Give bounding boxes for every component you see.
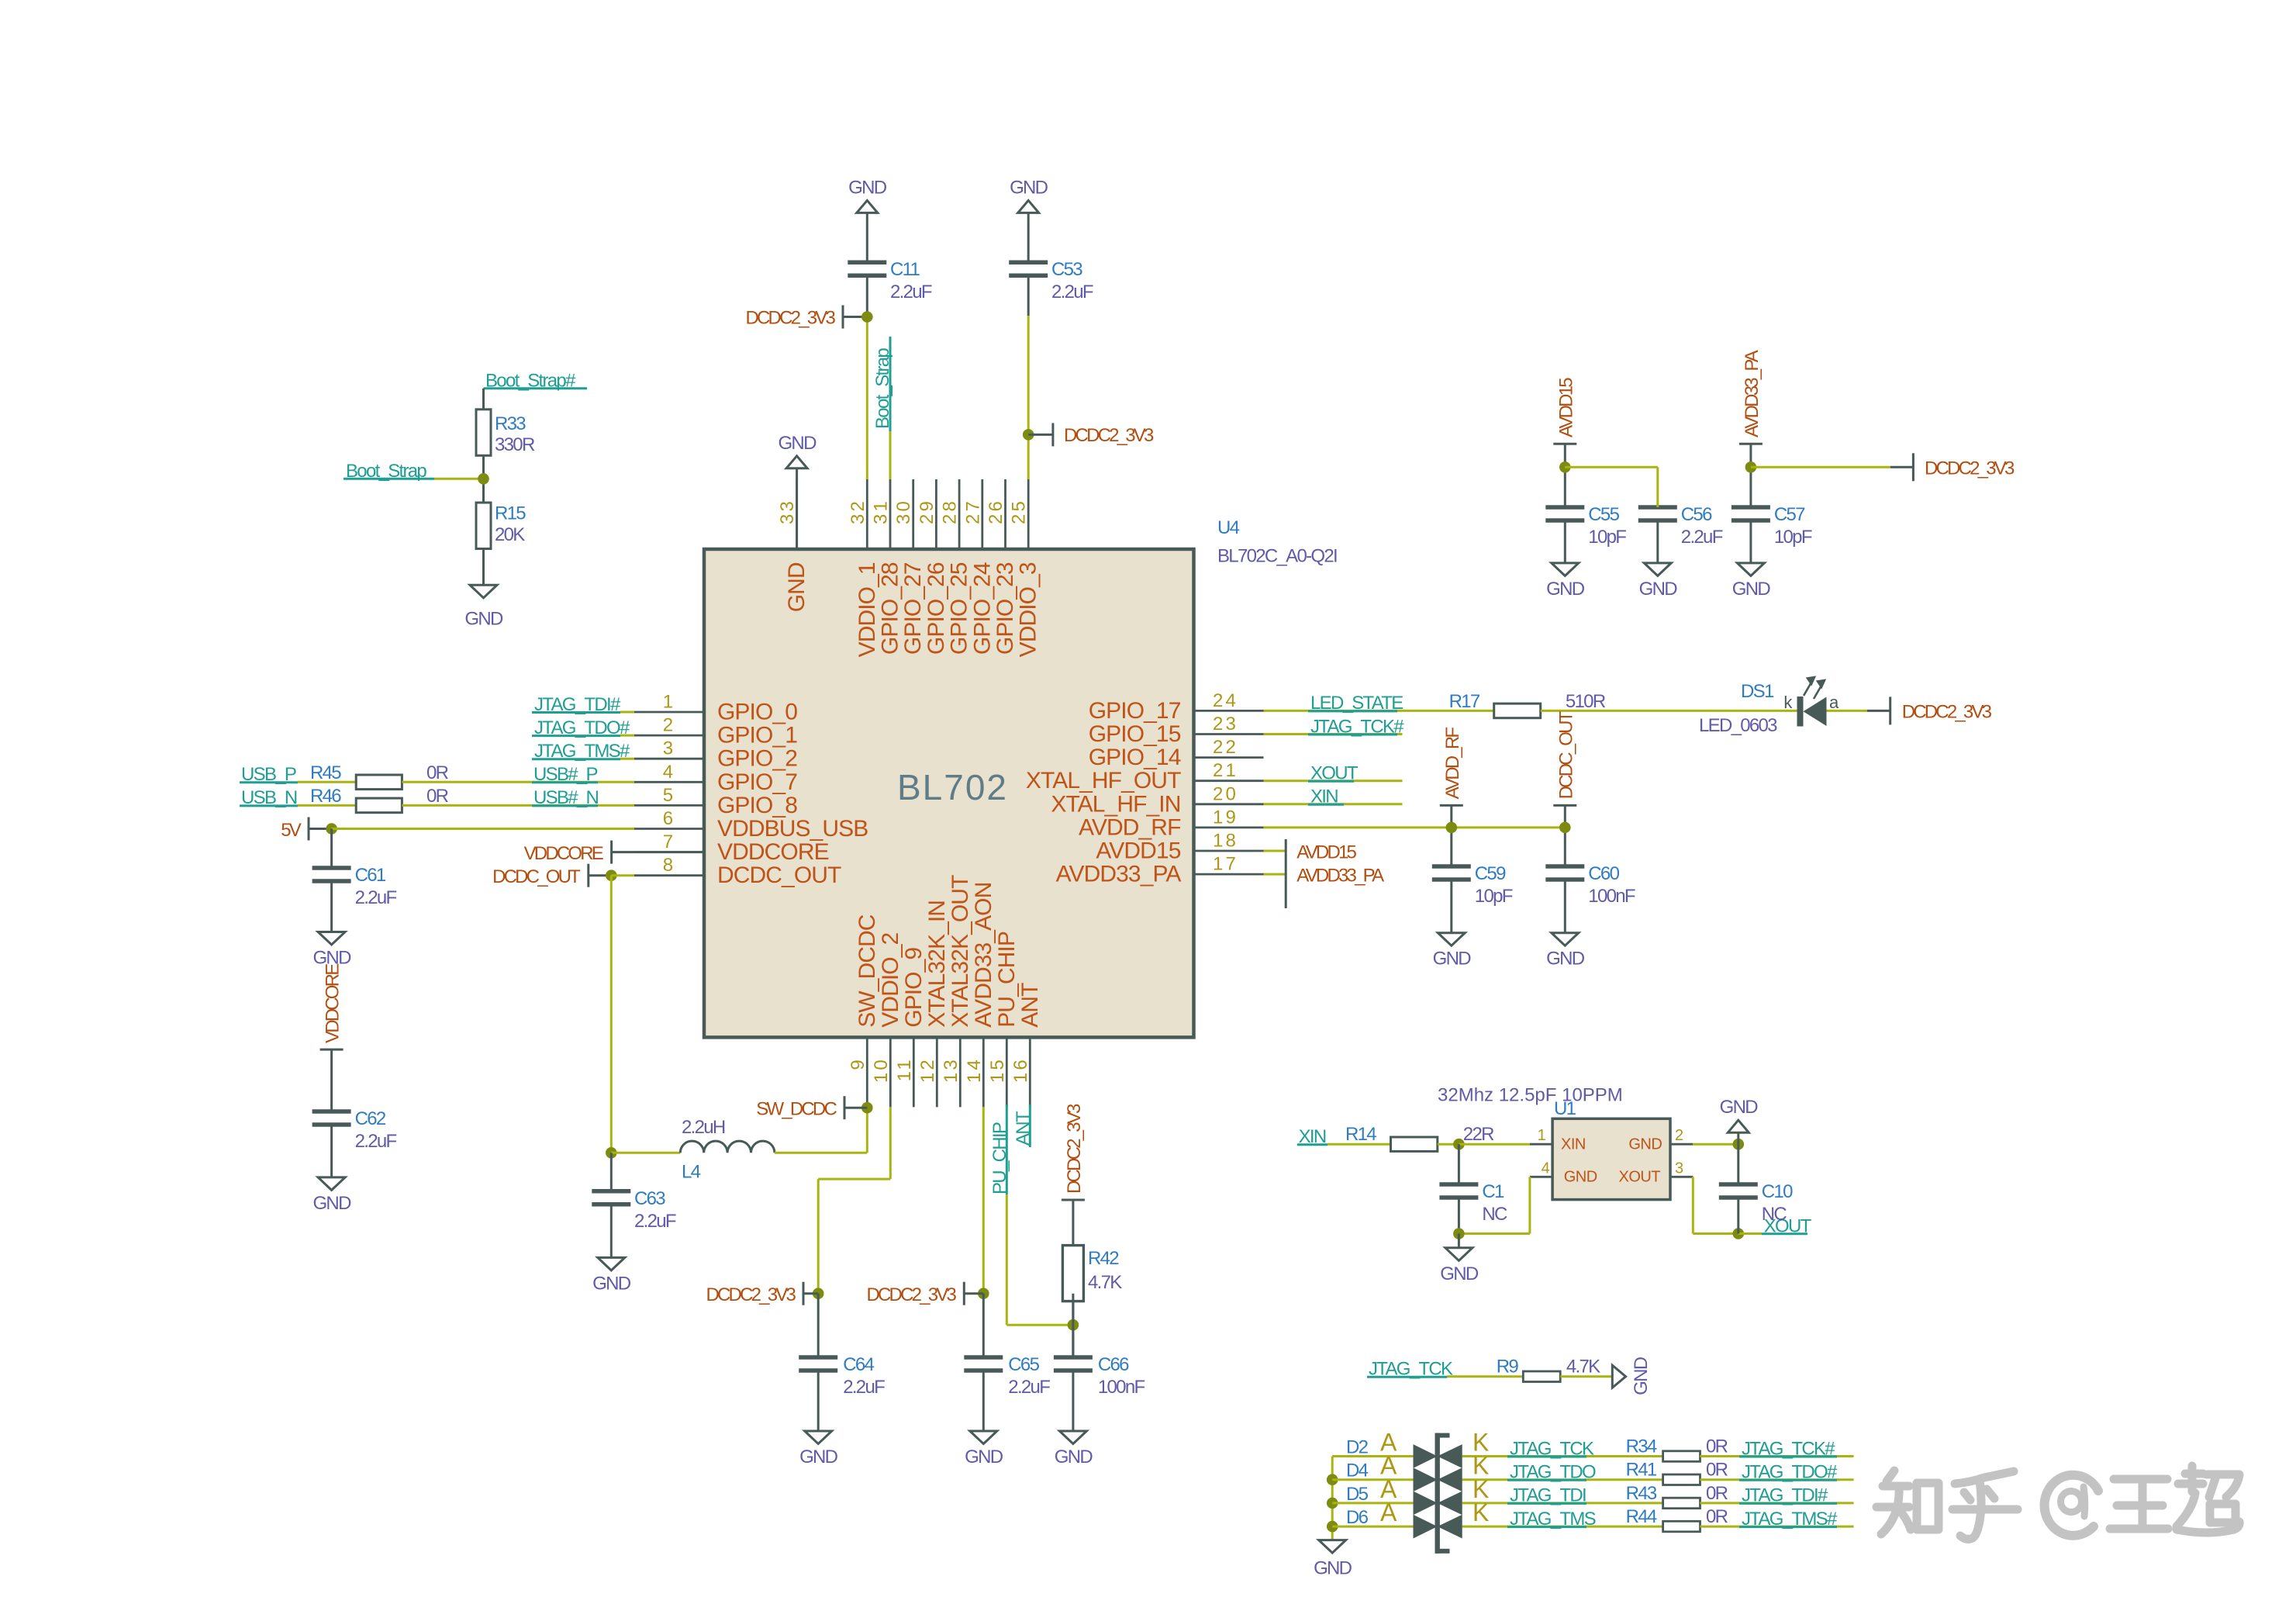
svg-text:VDDIO_2: VDDIO_2: [878, 933, 903, 1028]
svg-text:GPIO_1: GPIO_1: [717, 723, 797, 748]
svg-text:27: 27: [962, 499, 983, 524]
svg-text:GPIO_15: GPIO_15: [1089, 721, 1181, 747]
svg-text:2.2uH: 2.2uH: [682, 1117, 725, 1138]
svg-text:C56: C56: [1681, 504, 1712, 525]
svg-text:R41: R41: [1626, 1460, 1657, 1481]
svg-text:2.2uF: 2.2uF: [634, 1211, 676, 1232]
svg-text:GND: GND: [312, 1193, 351, 1214]
svg-text:GPIO_23: GPIO_23: [993, 562, 1018, 655]
svg-text:XTAL32K_IN: XTAL32K_IN: [924, 900, 950, 1028]
svg-text:XTAL32K_OUT: XTAL32K_OUT: [948, 875, 973, 1028]
svg-text:C11: C11: [890, 259, 920, 280]
svg-text:100nF: 100nF: [1588, 886, 1635, 907]
svg-text:19: 19: [1213, 807, 1238, 828]
svg-text:1: 1: [1538, 1127, 1546, 1144]
svg-text:XTAL_HF_OUT: XTAL_HF_OUT: [1026, 768, 1181, 793]
svg-text:15: 15: [987, 1057, 1008, 1083]
svg-text:DS1: DS1: [1741, 681, 1774, 702]
svg-text:VDDCORE: VDDCORE: [717, 839, 829, 865]
svg-text:AVDD15: AVDD15: [1096, 838, 1180, 864]
svg-text:GND: GND: [1546, 949, 1585, 970]
svg-text:10pF: 10pF: [1774, 527, 1812, 548]
svg-text:L4: L4: [682, 1161, 701, 1182]
svg-text:32Mhz 12.5pF 10PPM: 32Mhz 12.5pF 10PPM: [1438, 1085, 1623, 1106]
svg-text:R34: R34: [1626, 1436, 1657, 1457]
svg-text:GND: GND: [1055, 1447, 1093, 1467]
svg-text:0R: 0R: [1706, 1436, 1728, 1457]
svg-text:DCDC2_3V3: DCDC2_3V3: [1902, 702, 1992, 723]
svg-text:DCDC2_3V3: DCDC2_3V3: [745, 307, 835, 328]
svg-text:16: 16: [1010, 1057, 1031, 1083]
svg-text:DCDC2_3V3: DCDC2_3V3: [1064, 425, 1154, 446]
svg-text:2.2uF: 2.2uF: [890, 282, 932, 302]
svg-text:10pF: 10pF: [1588, 527, 1626, 548]
svg-text:GND: GND: [778, 433, 817, 454]
svg-text:R9: R9: [1497, 1357, 1519, 1377]
svg-text:C63: C63: [634, 1188, 665, 1209]
svg-text:2: 2: [1675, 1127, 1683, 1144]
svg-text:C64: C64: [843, 1354, 874, 1375]
svg-text:GND: GND: [1639, 579, 1678, 600]
svg-text:GND: GND: [1546, 579, 1585, 600]
svg-text:R33: R33: [495, 413, 526, 434]
svg-text:330R: 330R: [495, 434, 535, 455]
svg-text:32: 32: [848, 499, 868, 524]
svg-text:AVDD33_PA: AVDD33_PA: [1742, 350, 1763, 437]
svg-text:AVDD33_PA: AVDD33_PA: [1056, 862, 1182, 887]
svg-text:AVDD33_PA: AVDD33_PA: [1296, 865, 1384, 886]
svg-text:1: 1: [663, 692, 676, 713]
svg-text:GPIO_28: GPIO_28: [878, 562, 903, 655]
svg-text:2.2uF: 2.2uF: [1008, 1377, 1050, 1398]
svg-text:BL702: BL702: [897, 767, 1008, 807]
svg-text:22R: 22R: [1463, 1124, 1494, 1145]
svg-text:31: 31: [871, 499, 892, 524]
svg-text:GND: GND: [848, 177, 887, 198]
svg-text:22: 22: [1213, 737, 1238, 758]
svg-text:GND: GND: [965, 1447, 1003, 1467]
svg-text:C60: C60: [1588, 863, 1619, 884]
svg-text:VDDCORE: VDDCORE: [524, 843, 603, 864]
svg-text:VDDIO_1: VDDIO_1: [855, 562, 880, 657]
svg-text:R43: R43: [1626, 1483, 1657, 1504]
svg-text:ANT: ANT: [1017, 983, 1043, 1028]
svg-text:ANT: ANT: [1013, 1111, 1034, 1146]
svg-text:28: 28: [940, 499, 961, 524]
svg-text:R17: R17: [1449, 691, 1480, 712]
svg-text:2.2uF: 2.2uF: [355, 1131, 397, 1152]
svg-text:0R: 0R: [426, 786, 449, 807]
svg-text:D2: D2: [1346, 1437, 1369, 1458]
svg-text:D6: D6: [1346, 1507, 1369, 1528]
svg-text:C62: C62: [355, 1108, 386, 1129]
svg-text:23: 23: [1213, 714, 1238, 735]
svg-text:SW_DCDC: SW_DCDC: [756, 1098, 837, 1119]
svg-text:DCDC_OUT: DCDC_OUT: [717, 862, 841, 888]
svg-text:3: 3: [1675, 1160, 1683, 1177]
svg-text:0R: 0R: [1706, 1483, 1728, 1504]
svg-text:NC: NC: [1762, 1204, 1787, 1225]
svg-text:XIN: XIN: [1561, 1136, 1586, 1153]
svg-text:25: 25: [1009, 499, 1030, 524]
svg-text:R42: R42: [1088, 1248, 1119, 1269]
svg-text:LED_0603: LED_0603: [1699, 715, 1777, 736]
svg-text:NC: NC: [1482, 1204, 1507, 1225]
svg-text:DCDC2_3V3: DCDC2_3V3: [1925, 458, 2015, 479]
svg-text:SW_DCDC: SW_DCDC: [855, 914, 880, 1028]
svg-text:C1: C1: [1482, 1181, 1504, 1202]
svg-text:C59: C59: [1475, 863, 1506, 884]
svg-text:2.2uF: 2.2uF: [1681, 527, 1723, 548]
svg-text:C65: C65: [1008, 1354, 1039, 1375]
svg-text:33: 33: [777, 499, 798, 524]
svg-text:C10: C10: [1762, 1181, 1793, 1202]
svg-text:14: 14: [964, 1057, 985, 1083]
svg-text:D4: D4: [1346, 1460, 1369, 1481]
svg-text:GND: GND: [1564, 1169, 1597, 1186]
svg-text:510R: 510R: [1566, 691, 1606, 712]
svg-text:AVDD15: AVDD15: [1555, 378, 1576, 437]
svg-text:GND: GND: [784, 562, 810, 612]
svg-text:DCDC_OUT: DCDC_OUT: [492, 866, 581, 887]
svg-text:10: 10: [871, 1057, 892, 1083]
svg-text:30: 30: [893, 499, 914, 524]
svg-text:AVDD15: AVDD15: [1296, 842, 1356, 862]
svg-text:GND: GND: [464, 608, 503, 629]
svg-text:AVDD_RF: AVDD_RF: [1442, 728, 1463, 800]
svg-text:R46: R46: [310, 786, 341, 807]
svg-text:11: 11: [894, 1057, 915, 1081]
svg-text:7: 7: [663, 831, 676, 852]
svg-text:VDDIO_3: VDDIO_3: [1016, 562, 1041, 657]
svg-text:GPIO_17: GPIO_17: [1089, 698, 1181, 724]
svg-text:10pF: 10pF: [1475, 886, 1513, 907]
svg-text:6: 6: [663, 808, 676, 829]
svg-text:R14: R14: [1345, 1124, 1376, 1145]
svg-text:2: 2: [663, 715, 676, 736]
svg-text:VDDBUS_USB: VDDBUS_USB: [717, 816, 868, 842]
svg-text:Boot_Strap: Boot_Strap: [872, 348, 893, 429]
svg-text:GND: GND: [1720, 1097, 1759, 1118]
svg-text:VDDCORE: VDDCORE: [323, 964, 344, 1043]
svg-text:GND: GND: [592, 1273, 631, 1294]
svg-text:AVDD33_AON: AVDD33_AON: [971, 883, 996, 1028]
svg-text:24: 24: [1213, 690, 1238, 711]
svg-text:18: 18: [1213, 831, 1238, 852]
svg-text:4.7K: 4.7K: [1566, 1357, 1600, 1377]
svg-text:4.7K: 4.7K: [1088, 1272, 1122, 1293]
svg-text:R15: R15: [495, 503, 526, 524]
svg-text:PU_CHIP: PU_CHIP: [994, 932, 1020, 1028]
svg-text:DCDC2_3V3: DCDC2_3V3: [866, 1284, 956, 1305]
svg-text:C61: C61: [355, 865, 386, 886]
svg-text:GND: GND: [1732, 579, 1771, 600]
svg-text:100nF: 100nF: [1098, 1377, 1145, 1398]
svg-text:GPIO_25: GPIO_25: [947, 562, 972, 655]
svg-text:GND: GND: [1628, 1136, 1662, 1153]
svg-text:5: 5: [663, 785, 676, 806]
svg-text:DCDC_OUT: DCDC_OUT: [1555, 710, 1576, 799]
svg-text:0R: 0R: [1706, 1460, 1728, 1481]
svg-text:2.2uF: 2.2uF: [355, 887, 397, 908]
svg-text:0R: 0R: [426, 762, 449, 783]
svg-text:12: 12: [917, 1057, 938, 1083]
svg-text:GND: GND: [1010, 177, 1048, 198]
svg-text:21: 21: [1213, 760, 1238, 781]
svg-text:R44: R44: [1626, 1506, 1657, 1527]
svg-text:GPIO_14: GPIO_14: [1089, 745, 1181, 770]
svg-text:DCDC2_3V3: DCDC2_3V3: [706, 1284, 796, 1305]
svg-text:GPIO_27: GPIO_27: [900, 562, 926, 655]
svg-text:GND: GND: [312, 948, 351, 969]
svg-text:GPIO_9: GPIO_9: [901, 948, 927, 1028]
svg-text:29: 29: [917, 499, 937, 524]
svg-text:17: 17: [1213, 854, 1238, 875]
svg-text:2.2uF: 2.2uF: [1051, 282, 1093, 302]
svg-text:GPIO_24: GPIO_24: [969, 562, 995, 655]
svg-text:C66: C66: [1098, 1354, 1129, 1375]
svg-text:U1: U1: [1554, 1098, 1576, 1119]
svg-text:20: 20: [1213, 783, 1238, 804]
svg-text:GND: GND: [1440, 1263, 1479, 1284]
svg-text:XTAL_HF_IN: XTAL_HF_IN: [1051, 791, 1180, 817]
svg-text:D5: D5: [1346, 1484, 1369, 1505]
svg-text:GND: GND: [1433, 949, 1472, 970]
svg-text:8: 8: [663, 855, 676, 876]
svg-text:9: 9: [848, 1057, 868, 1070]
svg-text:26: 26: [986, 499, 1006, 524]
svg-text:4: 4: [663, 762, 676, 783]
svg-text:5V: 5V: [281, 820, 302, 841]
svg-text:GPIO_26: GPIO_26: [924, 562, 949, 655]
svg-text:DCDC2_3V3: DCDC2_3V3: [1064, 1104, 1085, 1194]
svg-text:4: 4: [1542, 1160, 1550, 1177]
svg-text:A: A: [1380, 1498, 1397, 1526]
svg-text:AVDD_RF: AVDD_RF: [1079, 814, 1181, 840]
svg-text:GPIO_8: GPIO_8: [717, 793, 797, 818]
svg-text:R45: R45: [310, 762, 341, 783]
svg-text:U4: U4: [1217, 517, 1240, 538]
svg-text:GND: GND: [799, 1447, 838, 1467]
svg-text:XOUT: XOUT: [1619, 1169, 1661, 1186]
svg-text:GPIO_2: GPIO_2: [717, 746, 797, 772]
svg-text:PU_CHIP: PU_CHIP: [989, 1122, 1010, 1194]
svg-text:C53: C53: [1051, 259, 1082, 280]
svg-text:GND: GND: [1631, 1357, 1652, 1395]
svg-text:13: 13: [941, 1057, 962, 1083]
svg-text:GPIO_0: GPIO_0: [717, 700, 797, 725]
svg-text:20K: 20K: [495, 524, 525, 545]
svg-text:2.2uF: 2.2uF: [843, 1377, 885, 1398]
svg-text:GPIO_7: GPIO_7: [717, 769, 797, 795]
svg-text:C57: C57: [1774, 504, 1805, 525]
svg-text:BL702C_A0-Q2I: BL702C_A0-Q2I: [1217, 546, 1337, 567]
svg-text:GND: GND: [1314, 1558, 1352, 1579]
svg-text:0R: 0R: [1706, 1506, 1728, 1527]
svg-text:C55: C55: [1588, 504, 1619, 525]
svg-text:3: 3: [663, 738, 676, 759]
svg-text:K: K: [1473, 1498, 1489, 1526]
